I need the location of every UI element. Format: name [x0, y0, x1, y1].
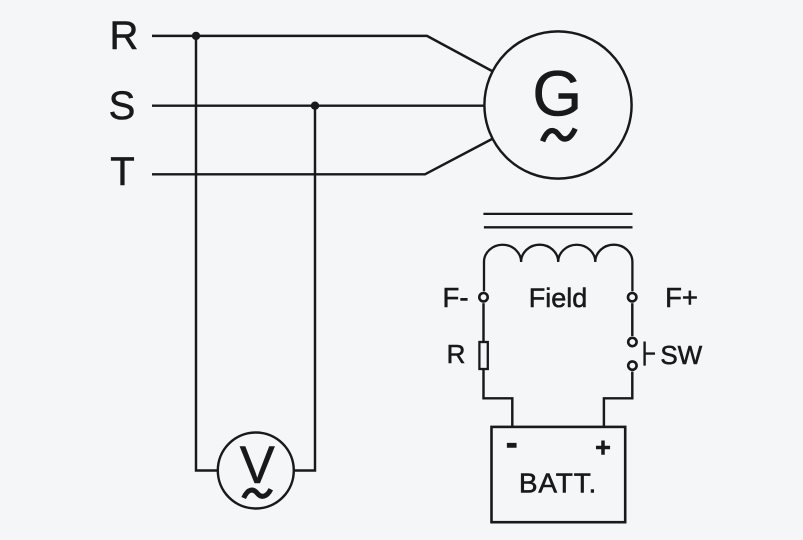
voltmeter tilde symbol — [244, 489, 271, 498]
generator tilde symbol — [543, 129, 576, 142]
svg-text:V: V — [240, 436, 275, 495]
junction node on S line — [311, 102, 319, 110]
svg-text:BATT.: BATT. — [519, 468, 597, 499]
svg-text:Field: Field — [529, 283, 588, 313]
wire resistor to battery minus — [484, 369, 513, 426]
wire phase T horizontal — [152, 139, 492, 174]
svg-text:SW: SW — [660, 340, 702, 370]
battery body — [492, 427, 626, 522]
svg-text:R: R — [447, 339, 466, 369]
voltmeter V circle — [218, 433, 294, 509]
terminal F- circle — [479, 293, 487, 301]
generator G circle — [484, 31, 631, 178]
wire right vertical from S junction to voltmeter — [294, 106, 315, 471]
stator double bar top line — [483, 213, 632, 215]
wire phase S horizontal — [152, 104, 484, 106]
svg-text:+: + — [595, 432, 611, 462]
junction node on R line — [192, 32, 200, 40]
switch contact upper circle — [628, 338, 636, 346]
svg-text:T: T — [110, 150, 134, 194]
resistor R body — [479, 342, 487, 369]
svg-text:R: R — [110, 14, 139, 58]
svg-text:S: S — [109, 84, 136, 128]
wire left vertical from R junction to voltmeter — [196, 36, 218, 471]
switch SW actuator tick — [645, 342, 655, 366]
wire F- to resistor — [482, 303, 484, 342]
svg-text:F+: F+ — [665, 282, 698, 313]
stator double bar bottom line — [484, 226, 633, 228]
svg-text:F-: F- — [443, 282, 469, 313]
svg-text:-: - — [506, 422, 518, 463]
wire phase R horizontal — [152, 36, 492, 71]
terminal F+ circle — [628, 293, 636, 301]
wire switch to battery plus — [604, 372, 632, 426]
switch contact lower circle — [628, 361, 636, 369]
field coil inductor — [484, 245, 632, 292]
svg-text:G: G — [532, 58, 582, 130]
wire F+ to switch — [631, 303, 633, 336]
